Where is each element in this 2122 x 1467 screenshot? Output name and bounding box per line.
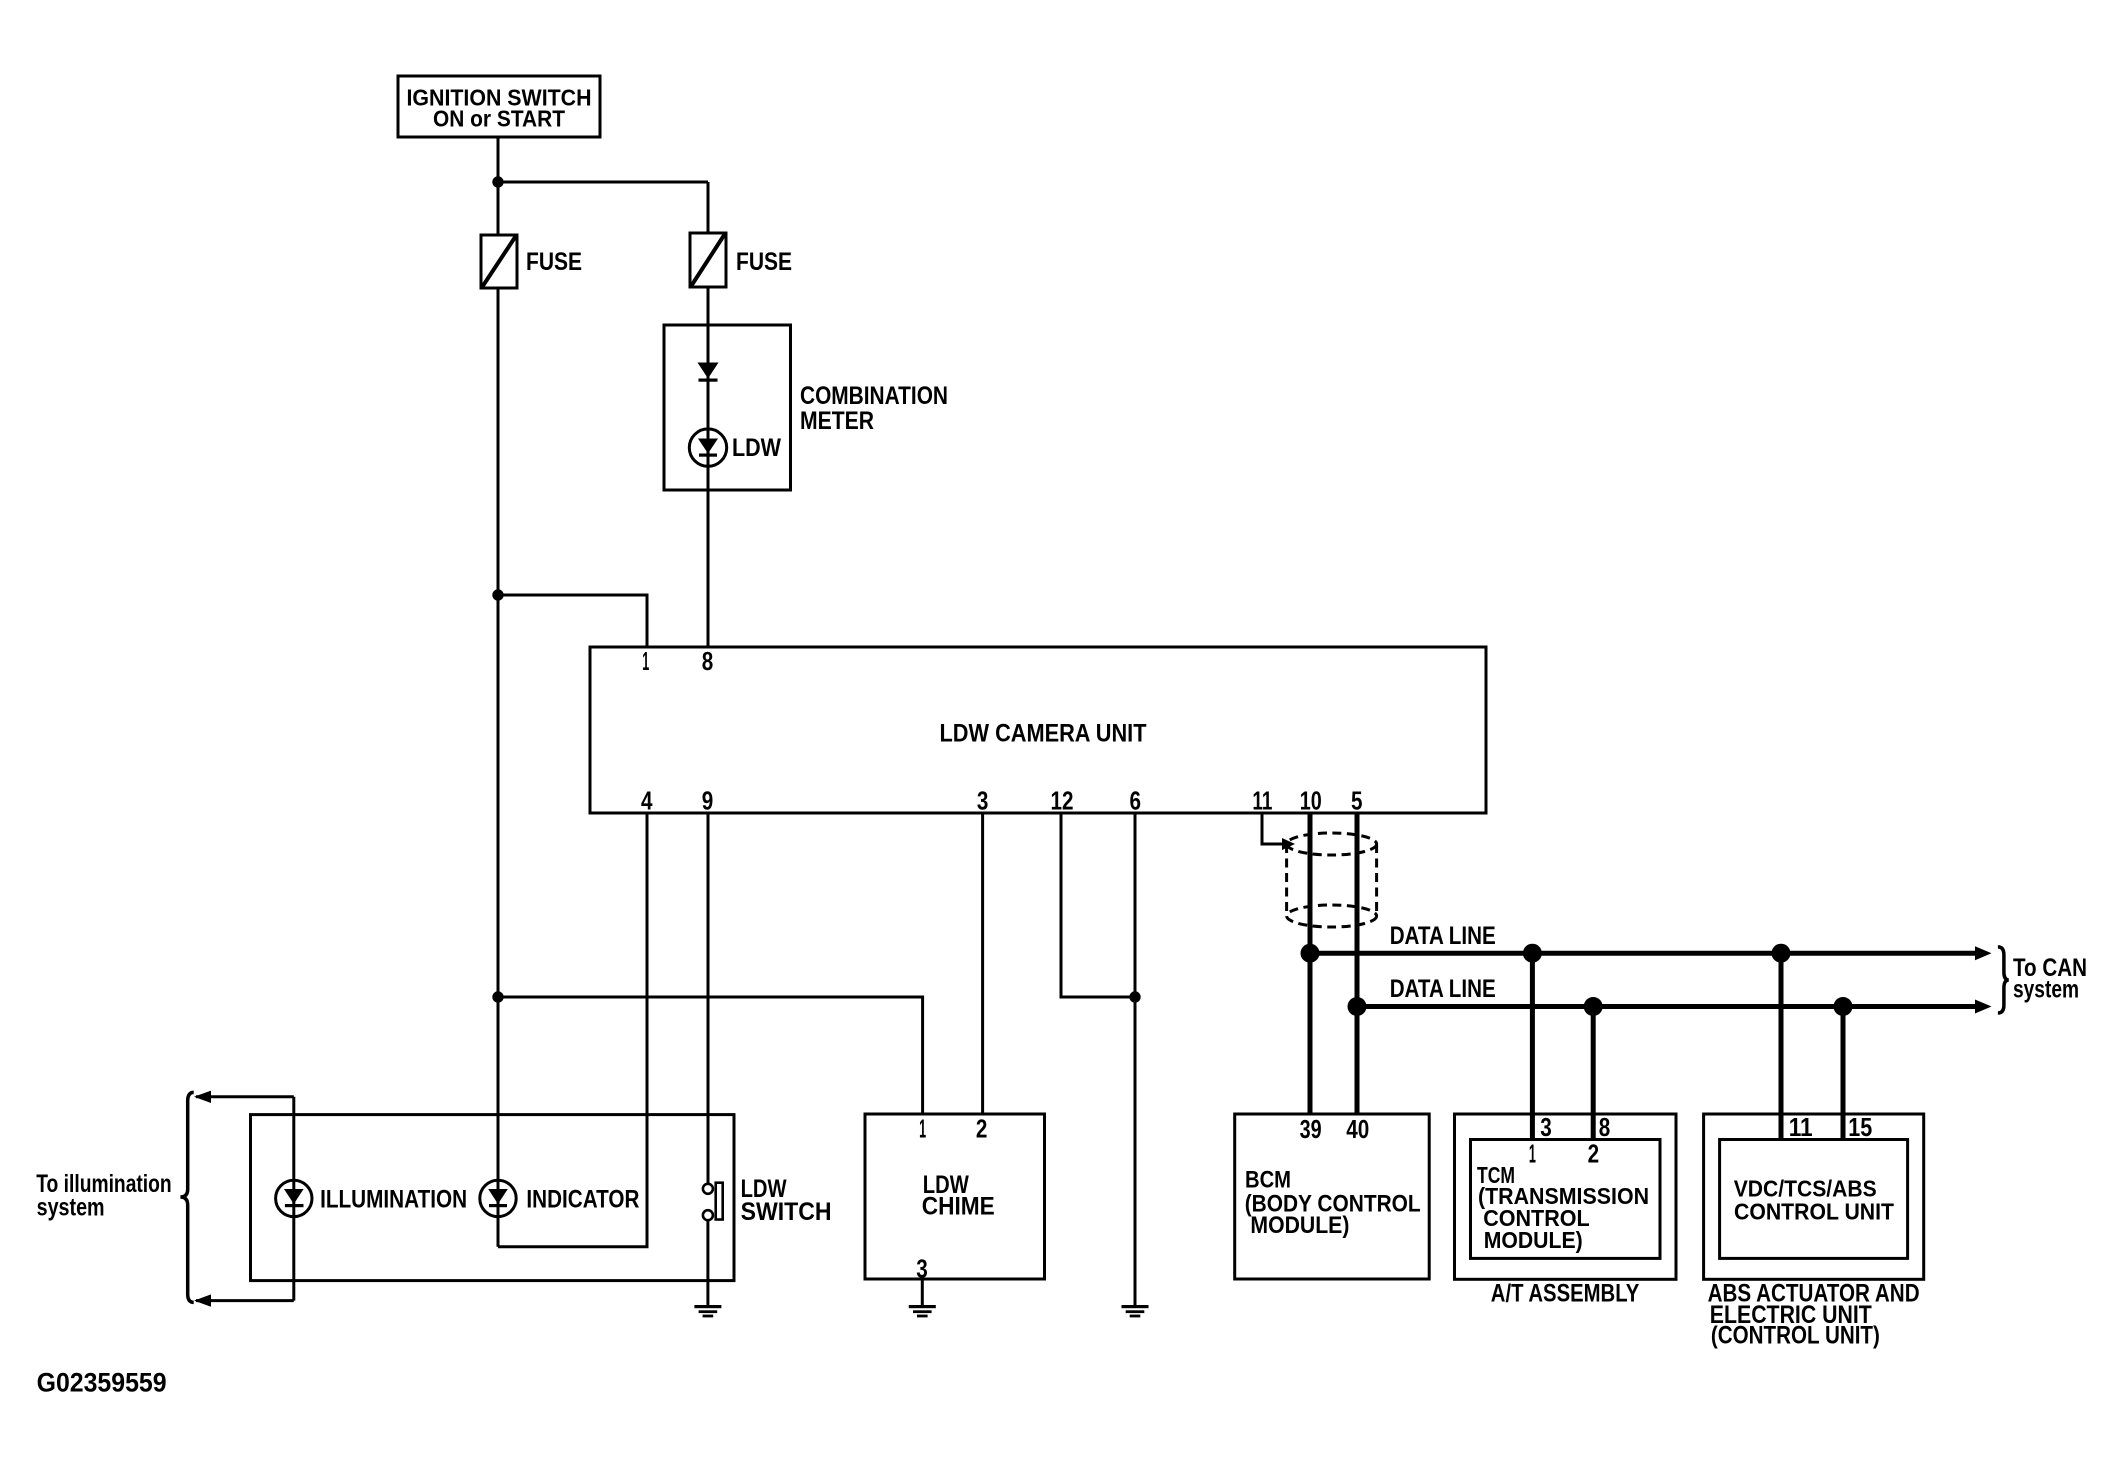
svg-text:A/T ASSEMBLY: A/T ASSEMBLY [1491, 1280, 1640, 1308]
svg-text:DATA LINE: DATA LINE [1390, 975, 1496, 1003]
svg-text:system: system [2013, 976, 2079, 1004]
svg-text:1: 1 [919, 1114, 926, 1144]
svg-text:FUSE: FUSE [736, 248, 792, 276]
svg-text:12: 12 [1051, 786, 1074, 816]
svg-text:39: 39 [1300, 1114, 1322, 1144]
svg-text:CONTROL UNIT: CONTROL UNIT [1734, 1199, 1895, 1225]
svg-text:5: 5 [1351, 786, 1363, 816]
svg-text:MODULE): MODULE) [1484, 1227, 1583, 1253]
svg-text:6: 6 [1130, 786, 1142, 816]
svg-text:11: 11 [1252, 786, 1272, 816]
svg-text:METER: METER [800, 407, 874, 435]
svg-text:LDW: LDW [732, 434, 781, 462]
svg-text:9: 9 [702, 786, 714, 816]
svg-text:2: 2 [976, 1114, 988, 1144]
svg-text:system: system [37, 1194, 105, 1222]
svg-text:SWITCH: SWITCH [741, 1198, 832, 1226]
svg-text:(CONTROL UNIT): (CONTROL UNIT) [1711, 1322, 1880, 1350]
svg-text:BCM: BCM [1245, 1166, 1291, 1193]
svg-text:10: 10 [1300, 786, 1322, 816]
svg-text:1: 1 [642, 646, 649, 676]
svg-text:8: 8 [1599, 1112, 1611, 1142]
svg-text:DATA LINE: DATA LINE [1390, 922, 1496, 950]
svg-text:MODULE): MODULE) [1250, 1212, 1349, 1239]
svg-text:3: 3 [1540, 1112, 1552, 1142]
svg-text:4: 4 [641, 786, 653, 816]
svg-text:3: 3 [977, 786, 989, 816]
svg-text:15: 15 [1848, 1112, 1872, 1142]
svg-text:G02359559: G02359559 [37, 1368, 167, 1398]
svg-text:FUSE: FUSE [526, 248, 582, 276]
svg-text:CHIME: CHIME [922, 1193, 995, 1221]
svg-text:LDW CAMERA UNIT: LDW CAMERA UNIT [940, 720, 1147, 748]
svg-text:2: 2 [1588, 1139, 1600, 1169]
svg-text:COMBINATION: COMBINATION [800, 382, 948, 410]
svg-text:1: 1 [1529, 1139, 1536, 1169]
svg-text:ILLUMINATION: ILLUMINATION [320, 1186, 467, 1214]
svg-text:8: 8 [702, 646, 714, 676]
svg-text:INDICATOR: INDICATOR [526, 1186, 639, 1214]
svg-text:ON or START: ON or START [433, 105, 565, 131]
svg-text:11: 11 [1789, 1112, 1813, 1142]
svg-text:3: 3 [916, 1254, 928, 1284]
svg-text:40: 40 [1346, 1114, 1369, 1144]
